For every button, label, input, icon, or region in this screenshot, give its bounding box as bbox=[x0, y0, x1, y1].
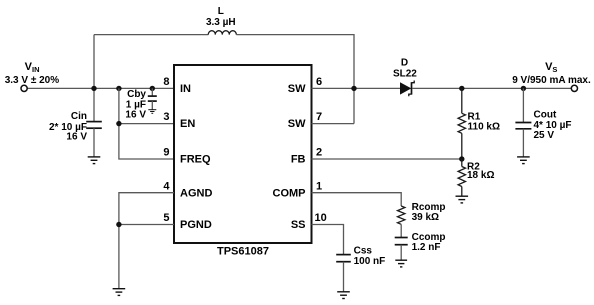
svg-text:25 V: 25 V bbox=[534, 130, 555, 141]
svg-text:COMP: COMP bbox=[273, 187, 306, 199]
junction: FB node bbox=[459, 156, 464, 161]
capacitor Ccomp bbox=[395, 224, 408, 260]
ground: AGND/PGND bbox=[113, 289, 126, 296]
capacitor Cby bbox=[148, 88, 157, 109]
junction: input rail / Cin bbox=[91, 86, 96, 91]
svg-text:Cin: Cin bbox=[71, 111, 87, 122]
svg-text:6: 6 bbox=[316, 76, 322, 88]
inductor L bbox=[208, 31, 236, 35]
svg-text:8: 8 bbox=[163, 76, 169, 88]
junction: Cby tap on input rail bbox=[150, 86, 155, 91]
svg-text:39 kΩ: 39 kΩ bbox=[412, 212, 439, 223]
svg-text:S: S bbox=[552, 65, 557, 74]
svg-text:D: D bbox=[401, 58, 408, 69]
wire: top rail left segment bbox=[94, 34, 208, 36]
svg-text:SS: SS bbox=[291, 219, 306, 231]
svg-text:3: 3 bbox=[163, 111, 169, 123]
svg-text:16 V: 16 V bbox=[125, 109, 146, 120]
svg-text:3.3 µH: 3.3 µH bbox=[206, 17, 236, 28]
svg-text:SW: SW bbox=[288, 118, 306, 130]
svg-text:100 nF: 100 nF bbox=[354, 256, 386, 267]
svg-text:5: 5 bbox=[163, 212, 169, 224]
svg-text:16 V: 16 V bbox=[66, 131, 87, 142]
ground: R2 bbox=[456, 196, 469, 203]
svg-text:1.2 nF: 1.2 nF bbox=[412, 242, 441, 253]
svg-text:EN: EN bbox=[180, 118, 195, 130]
wire: SS to soft-start capacitor bbox=[312, 225, 344, 255]
junction: PGND tap bbox=[116, 222, 121, 227]
capacitor Css bbox=[336, 255, 351, 292]
wire: FB to feedback divider bbox=[312, 158, 462, 160]
terminal VS bbox=[571, 85, 577, 91]
ground: Cout bbox=[517, 157, 530, 164]
svg-text:4: 4 bbox=[163, 180, 170, 192]
junction: EN pin tap bbox=[116, 121, 121, 126]
svg-text:IN: IN bbox=[180, 83, 191, 95]
ground: Cin bbox=[88, 157, 101, 164]
svg-text:7: 7 bbox=[316, 111, 322, 123]
wire: VIN input rail to IC pin IN bbox=[27, 87, 174, 89]
svg-text:3.3 V ± 20%: 3.3 V ± 20% bbox=[5, 75, 60, 86]
ground: Ccomp bbox=[395, 260, 407, 267]
junction: Cout tap on output rail bbox=[521, 86, 526, 91]
svg-text:SL22: SL22 bbox=[393, 69, 417, 80]
svg-text:9 V/950 mA max.: 9 V/950 mA max. bbox=[512, 75, 591, 86]
svg-text:10: 10 bbox=[315, 212, 327, 224]
svg-text:SW: SW bbox=[288, 83, 306, 95]
resistor R2 bbox=[458, 159, 465, 196]
wire: EN/FREQ branch bbox=[119, 88, 174, 159]
op-amp U1 TPS61087 IC body bbox=[174, 65, 312, 243]
svg-text:IN: IN bbox=[32, 65, 40, 74]
node VIN label bbox=[25, 61, 40, 74]
svg-text:Css: Css bbox=[354, 245, 373, 256]
wire: COMP to compensation network bbox=[312, 193, 402, 206]
wire: vertical riser from input rail up to inductor rail and down to Cin bbox=[93, 35, 95, 122]
svg-text:1: 1 bbox=[316, 180, 322, 192]
wire: SW pin 6 to diode anode bbox=[312, 87, 401, 89]
svg-text:FREQ: FREQ bbox=[180, 154, 211, 166]
wire: SW pin 7 stub bbox=[312, 123, 355, 125]
junction: R1 tap on output rail bbox=[459, 86, 464, 91]
wire: top rail right segment with drop to SW node and SW pin 7 bbox=[236, 35, 354, 124]
capacitor Cout bbox=[515, 88, 531, 156]
capacitor Cin bbox=[86, 122, 102, 157]
resistor R1 bbox=[458, 88, 465, 159]
ground: Cby bbox=[148, 110, 156, 114]
svg-text:AGND: AGND bbox=[180, 187, 212, 199]
svg-text:PGND: PGND bbox=[180, 219, 212, 231]
wire: output rail from diode cathode to VS terminal bbox=[412, 87, 571, 89]
node VS label bbox=[545, 61, 557, 74]
resistor Rcomp bbox=[398, 206, 405, 224]
svg-text:FB: FB bbox=[291, 154, 306, 166]
wire: AGND/PGND to ground bbox=[119, 193, 174, 289]
svg-text:2: 2 bbox=[316, 147, 322, 159]
terminal VIN bbox=[21, 85, 27, 91]
junction: SW node bbox=[351, 86, 356, 91]
diode D SL22 (schottky) bbox=[400, 81, 414, 97]
svg-text:L: L bbox=[218, 6, 224, 17]
svg-text:110 kΩ: 110 kΩ bbox=[468, 121, 501, 132]
svg-text:18 kΩ: 18 kΩ bbox=[467, 170, 494, 181]
junction: EN/FREQ branch on input rail bbox=[116, 86, 121, 91]
svg-text:TPS61087: TPS61087 bbox=[217, 246, 269, 258]
ground: Css bbox=[337, 292, 350, 299]
svg-text:9: 9 bbox=[163, 147, 169, 159]
